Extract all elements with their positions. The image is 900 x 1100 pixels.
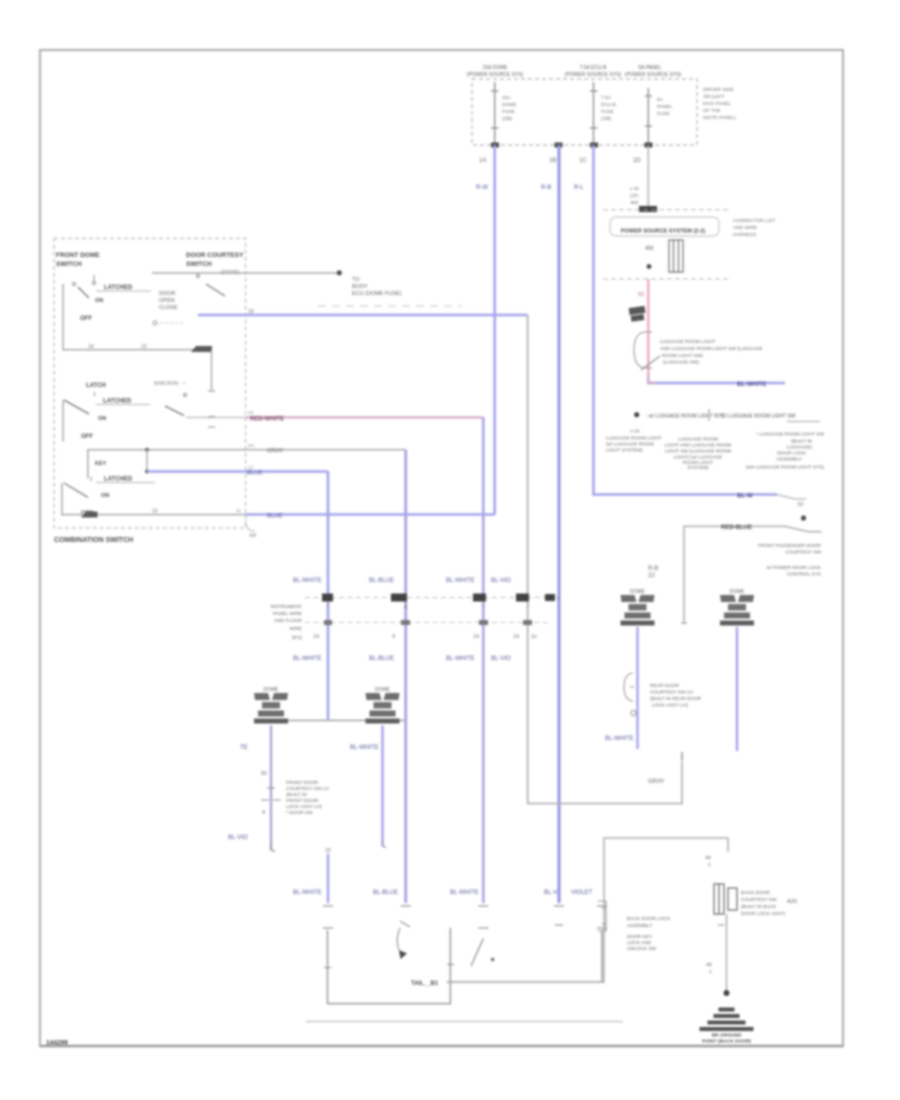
switch tick right — [447, 964, 454, 966]
svg-text:1: 1 — [709, 969, 712, 975]
S2 stub from rail — [208, 350, 215, 391]
svg-text:BL-BLUE: BL-BLUE — [369, 656, 394, 662]
svg-text:(POWER SOURCE SYS): (POWER SOURCE SYS) — [565, 72, 622, 78]
svg-text:DOME: DOME — [502, 102, 516, 108]
svg-text:(POWER SOURCE SYS): (POWER SOURCE SYS) — [625, 72, 682, 78]
gray feed end tick — [681, 622, 687, 624]
wire blue drop from L4 — [736, 627, 738, 751]
svg-text:BL-BLUE: BL-BLUE — [369, 578, 394, 584]
svg-text:LUGGAGE): LUGGAGE) — [787, 445, 813, 451]
svg-text:LATCHED: LATCHED — [104, 285, 133, 291]
border bottom emphasis — [40, 1045, 843, 1048]
svg-text:LIGHT SW (LUGGAGE ROOM: LIGHT SW (LUGGAGE ROOM — [665, 449, 731, 455]
wire blue bottom rail out — [246, 513, 495, 516]
svg-text:LIGHT) (w/ LUGGAGE: LIGHT) (w/ LUGGAGE — [674, 455, 723, 461]
key arrow marks — [400, 921, 410, 927]
S2 left wire and blade — [62, 400, 64, 442]
svg-text:PANEL: PANEL — [657, 104, 673, 110]
wire blue thick from JB down to switch terminal — [557, 145, 560, 903]
svg-text:4B: 4B — [705, 855, 711, 861]
svg-text:INSTR PANEL): INSTR PANEL) — [703, 115, 736, 121]
fuse F2 label — [565, 65, 622, 78]
svg-text:BACK DOOR: BACK DOOR — [741, 890, 770, 896]
svg-text:14: 14 — [473, 634, 479, 640]
switch tick left — [324, 967, 331, 969]
svg-text:BL-WHITE: BL-WHITE — [293, 890, 322, 896]
svg-text:COMBINATION SWITCH: COMBINATION SWITCH — [54, 537, 133, 544]
svg-text:DOOR: DOOR — [159, 291, 176, 297]
svg-text:(BUILT IN: (BUILT IN — [791, 439, 812, 445]
svg-text:DOME: DOME — [264, 687, 280, 693]
wire gray long vertical — [528, 315, 682, 804]
svg-text:1D: 1D — [633, 158, 641, 164]
S2 terminal — [94, 392, 96, 396]
svg-text:* LUGGAGE ROOM LIGHT SW: * LUGGAGE ROOM LIGHT SW — [756, 432, 824, 438]
wire blue vertical to lamp rail — [327, 472, 330, 720]
connector rows left label — [271, 604, 303, 641]
courtesy lamp L3 — [621, 595, 655, 626]
S2 latched underline — [96, 404, 150, 406]
svg-text:PANEL WIRE: PANEL WIRE — [273, 611, 302, 617]
S3 blade assembly — [61, 483, 63, 515]
svg-text:w/ POWER DOOR LOCK: w/ POWER DOOR LOCK — [767, 565, 822, 571]
svg-text:R-W: R-W — [476, 185, 488, 191]
key arrowhead — [399, 950, 407, 959]
power source banner — [610, 217, 719, 236]
svg-text:DOOR COURTESY: DOOR COURTESY — [186, 252, 244, 259]
svg-text:15A: 15A — [502, 95, 511, 101]
svg-text:14: 14 — [88, 344, 94, 350]
ground symbol — [700, 1008, 754, 1032]
S3 rail top — [88, 450, 406, 479]
svg-text:COURTESY SW: COURTESY SW — [785, 550, 821, 556]
svg-text:7.5A: 7.5A — [601, 95, 612, 101]
S1 middle text block — [159, 291, 178, 311]
svg-text:J/B (LEFT: J/B (LEFT — [703, 94, 725, 100]
svg-text:4M): 4M) — [630, 200, 639, 206]
junction block label — [703, 87, 736, 121]
S3 blade — [64, 483, 88, 497]
wire red vertical from J/C down — [647, 279, 649, 382]
footnote block B — [665, 437, 732, 472]
svg-text:FRONT DOOR: FRONT DOOR — [286, 798, 319, 804]
fuse F3 side text — [657, 97, 673, 117]
svg-text:OF THE: OF THE — [703, 108, 721, 114]
assembly right wire — [447, 930, 602, 982]
link down to blue rail — [146, 450, 148, 472]
svg-text:LATCHED: LATCHED — [104, 477, 133, 483]
wire blue lower segment — [327, 854, 329, 903]
svg-text:BL-WHITE: BL-WHITE — [605, 736, 634, 742]
svg-text:UNLOCK SW: UNLOCK SW — [627, 946, 657, 952]
4B1 connector label — [706, 962, 712, 975]
svg-text:4: 4 — [404, 605, 407, 611]
svg-text:* : TO LUGGAGE ROOM LIGHT SW: * : TO LUGGAGE ROOM LIGHT SW — [714, 414, 796, 420]
switch column tick — [718, 924, 724, 926]
svg-text:DOME: DOME — [375, 687, 391, 693]
svg-text:R-L: R-L — [574, 185, 584, 191]
luggage room light switch body — [634, 332, 652, 368]
svg-text:AND FLOOR: AND FLOOR — [274, 618, 303, 624]
junction blob on legend row — [639, 206, 657, 212]
S1 terminal — [93, 275, 96, 285]
right text group 2 — [767, 565, 822, 578]
svg-text:13: 13 — [141, 344, 147, 350]
svg-text:L-W: L-W — [630, 186, 639, 192]
svg-text:BL-V: BL-V — [544, 890, 557, 896]
svg-text:LIGHT SYSTEM): LIGHT SYSTEM) — [606, 448, 643, 454]
svg-text:FRONT PASSENGER DOOR: FRONT PASSENGER DOOR — [758, 543, 822, 549]
node dot TO — [337, 270, 342, 275]
svg-text:BL-WHITE: BL-WHITE — [450, 890, 479, 896]
svg-text:FUSE: FUSE — [502, 109, 515, 115]
svg-text:(LUGGAGE SW): (LUGGAGE SW) — [663, 360, 699, 366]
wire blue horizontal right mid — [594, 494, 778, 495]
wire blue from fuse2 down — [592, 145, 595, 494]
S2 right contact — [184, 394, 187, 397]
key cylinder switch body left — [328, 928, 451, 1004]
junction block J/B dashed outline — [472, 79, 697, 145]
courtesy lamp L2 — [366, 693, 400, 724]
terminal ticks x559 — [554, 906, 564, 925]
svg-text:RED-BLUE: RED-BLUE — [721, 525, 752, 531]
fuse F2 — [590, 82, 598, 145]
S1 left wire — [63, 284, 212, 350]
connector dashed row 2 — [305, 622, 548, 624]
svg-text:GRAY: GRAY — [648, 779, 665, 785]
switch column wire — [726, 914, 728, 991]
svg-text:1A: 1A — [479, 158, 486, 164]
svg-text:A20: A20 — [787, 899, 797, 905]
S1 latched underline — [96, 290, 151, 292]
wire blue drop from L2 — [381, 726, 383, 847]
pin labels at box edge — [236, 410, 255, 514]
wire gray courtesy feed — [684, 526, 822, 623]
svg-text:5A PANEL: 5A PANEL — [638, 65, 661, 71]
back door inside connector — [598, 901, 606, 931]
wire blue drop from L3 — [636, 627, 638, 749]
svg-text:14: 14 — [313, 634, 319, 640]
svg-text:(BUILT IN BACK: (BUILT IN BACK — [741, 904, 777, 910]
connector row labels top — [293, 578, 511, 584]
svg-text:(J/B): (J/B) — [601, 116, 612, 122]
svg-text:BACK DOOR LOCK: BACK DOOR LOCK — [627, 916, 671, 922]
svg-text:A 22: A 22 — [630, 429, 640, 435]
4B2 connector label — [705, 855, 711, 868]
svg-text:144299: 144299 — [46, 1040, 68, 1047]
svg-text:(IF2): (IF2) — [292, 635, 303, 641]
svg-text:ON: ON — [95, 298, 103, 304]
connector blob on red wire — [629, 306, 646, 322]
svg-text:LUGGAGE ROOM LIGHT: LUGGAGE ROOM LIGHT — [660, 339, 716, 345]
box title left — [56, 252, 100, 268]
S1 circled dot annotation — [153, 321, 185, 325]
svg-text:RED-WHITE: RED-WHITE — [250, 417, 284, 423]
wire blue horizontal from switch to right — [648, 382, 785, 385]
svg-text:11: 11 — [236, 508, 241, 514]
S1 contact — [73, 283, 76, 286]
svg-text:SYSTEM): SYSTEM) — [687, 465, 709, 471]
svg-text:BL-W: BL-W — [737, 494, 753, 500]
svg-text:HARNESS: HARNESS — [733, 232, 756, 238]
svg-text:SWITCH: SWITCH — [186, 261, 212, 268]
key arrow arc — [397, 928, 400, 950]
svg-text:BL-VIO: BL-VIO — [228, 835, 248, 841]
svg-text:BL-VIO: BL-VIO — [491, 578, 511, 584]
terminal ticks x405 — [401, 905, 411, 907]
wire gray from fuse3 down — [647, 145, 649, 210]
svg-text:BODY: BODY — [352, 284, 368, 290]
fuse F1 side text — [502, 95, 516, 122]
svg-text:FRONT DOOR: FRONT DOOR — [286, 780, 319, 786]
svg-text:R-B: R-B — [541, 185, 551, 191]
svg-text:7.5A ECU-B: 7.5A ECU-B — [580, 65, 608, 71]
svg-text:DOOR LOCK: DOOR LOCK — [777, 451, 807, 457]
S1 right contact — [197, 275, 200, 278]
svg-text:(BUILT IN: (BUILT IN — [286, 792, 307, 798]
dashed separator row 2 — [603, 278, 731, 280]
svg-text:DOOR KEY: DOOR KEY — [627, 934, 653, 940]
fuse F3 label — [625, 65, 682, 78]
svg-text:COURTESY SW: COURTESY SW — [741, 897, 777, 903]
svg-text:KEY: KEY — [95, 461, 107, 467]
svg-text:LOCK ASSY LH): LOCK ASSY LH) — [286, 804, 322, 810]
back door box outline — [447, 838, 728, 982]
wire blue from fuse1 down — [493, 145, 496, 515]
JB pin blobs — [491, 143, 653, 148]
svg-text:WIRE: WIRE — [289, 626, 302, 632]
row2 pin numbers — [313, 634, 537, 640]
svg-text:OFF: OFF — [81, 434, 93, 440]
svg-text:COURTESY SW LH: COURTESY SW LH — [650, 690, 694, 696]
svg-text:CONTROL SYS: CONTROL SYS — [787, 572, 821, 578]
svg-text:LUGGAGE ROOM: LUGGAGE ROOM — [678, 437, 718, 443]
wire blue rail mid — [147, 470, 328, 473]
svg-text:DOME: DOME — [630, 589, 646, 595]
blue drop end cap — [383, 840, 387, 847]
box bottom corner — [246, 521, 255, 531]
back door courtesy switch connector — [714, 884, 737, 914]
svg-text:4: 4 — [392, 634, 395, 640]
wire red horizontal — [246, 416, 484, 418]
svg-text:LUGGAGE ROOM LIGHT: LUGGAGE ROOM LIGHT — [606, 436, 662, 442]
S3 rail blob — [81, 512, 98, 518]
S2 fixed contact ticks — [208, 417, 215, 428]
dashed separator row 1 — [603, 209, 731, 211]
svg-text:DOOR LOCK ASSY): DOOR LOCK ASSY) — [741, 911, 786, 917]
svg-text:(J/C: (J/C — [630, 193, 639, 199]
svg-text:LIGHT AND LUGGAGE ROOM: LIGHT AND LUGGAGE ROOM — [665, 443, 732, 449]
svg-text:ON: ON — [101, 493, 109, 499]
switch label — [660, 339, 763, 366]
svg-text:4: 4 — [262, 810, 265, 816]
svg-text:(BUILT IN REAR DOOR: (BUILT IN REAR DOOR — [650, 696, 702, 702]
svg-text:10: 10 — [152, 509, 158, 515]
svg-text:BL-WHITE: BL-WHITE — [737, 382, 766, 388]
rear door switch connector on L3 drop — [624, 673, 634, 701]
svg-text:BL-WHITE: BL-WHITE — [446, 578, 475, 584]
svg-text:2H: 2H — [248, 443, 255, 449]
svg-text:REAR DOOR: REAR DOOR — [650, 683, 680, 689]
svg-text:1C: 1C — [579, 158, 587, 164]
svg-text:FUSE: FUSE — [601, 109, 614, 115]
svg-text:ON: ON — [98, 416, 106, 422]
junction node lower — [145, 470, 149, 474]
ground node dot — [724, 990, 730, 996]
rear door switch ring — [631, 710, 636, 715]
svg-text:LATCH: LATCH — [86, 383, 106, 389]
svg-text:GRAY: GRAY — [267, 449, 284, 455]
svg-text:BL-VIO: BL-VIO — [491, 656, 511, 662]
terminal ticks x602 — [597, 906, 607, 928]
svg-text:ASSEMBLY: ASSEMBLY — [776, 457, 802, 463]
svg-text:BLUE: BLUE — [267, 514, 283, 520]
svg-text:ECU-B: ECU-B — [601, 102, 616, 108]
svg-text:COURTESY SW LH: COURTESY SW LH — [286, 786, 330, 792]
banner side label — [733, 218, 775, 238]
svg-text:1B: 1B — [549, 158, 556, 164]
connector tick top of gray stub — [681, 752, 683, 761]
svg-text:R-B: R-B — [648, 566, 658, 572]
unlock blade — [471, 939, 483, 966]
svg-text:92: 92 — [638, 292, 644, 298]
node dot right — [801, 515, 806, 520]
S3 latched underline — [96, 482, 155, 484]
footnote block C — [746, 432, 825, 471]
svg-text:BL-BLUE: BL-BLUE — [373, 890, 398, 896]
svg-text:92: 92 — [261, 771, 267, 777]
S1 blade — [78, 287, 89, 298]
svg-text:22: 22 — [648, 573, 655, 579]
S2 right blade — [165, 406, 184, 416]
fuse F1 label — [467, 65, 524, 78]
connector code text near fuse3 line — [630, 186, 639, 206]
front door courtesy switch text — [286, 780, 330, 816]
svg-text:ASSEMBLY: ASSEMBLY — [627, 923, 653, 929]
rear door switch label — [650, 683, 702, 709]
footnote block A — [606, 429, 662, 454]
TO text — [352, 277, 402, 297]
mechanical link dashes — [318, 305, 462, 307]
svg-text:4M: 4M — [645, 246, 653, 252]
S3 bottom rail — [61, 514, 246, 516]
long thin baseline — [306, 1021, 623, 1023]
S1 right blade — [206, 284, 225, 296]
svg-text:OPEN: OPEN — [159, 298, 175, 304]
junction node on rail — [145, 448, 149, 452]
svg-text:(POWER SOURCE SYS): (POWER SOURCE SYS) — [467, 72, 524, 78]
wire blue dome out — [198, 314, 528, 317]
svg-text:(w/o LUGGAGE ROOM LIGHT SYS): (w/o LUGGAGE ROOM LIGHT SYS) — [746, 465, 825, 471]
bottom wire labels row — [373, 890, 593, 896]
wire violet vertical from red corner down — [482, 417, 485, 903]
svg-text:BL-WHITE: BL-WHITE — [350, 745, 379, 751]
ground label — [702, 1033, 751, 1045]
back door text block — [627, 916, 671, 952]
svg-text:TE: TE — [240, 745, 248, 751]
svg-text:(J/B): (J/B) — [502, 116, 513, 122]
svg-text:CLOSE: CLOSE — [159, 305, 178, 311]
inter-row ticks — [328, 601, 528, 608]
S3 terminal — [90, 477, 92, 481]
courtesy lamp L1 — [254, 693, 288, 724]
connector row labels bottom — [293, 656, 511, 662]
svg-text:BR GROUND: BR GROUND — [712, 1033, 742, 1039]
right text group 1 — [758, 543, 822, 556]
JB pin numbers — [479, 158, 641, 164]
S1 rail tick text — [88, 344, 147, 350]
terminal ticks x328 — [323, 906, 333, 928]
svg-text:LATCHED: LATCHED — [103, 399, 132, 405]
svg-text:13: 13 — [248, 410, 254, 416]
svg-text:15A DOME: 15A DOME — [482, 65, 508, 71]
switch blade Q — [641, 356, 660, 370]
svg-text:2: 2 — [708, 862, 711, 868]
to annotation line — [152, 272, 337, 274]
svg-text:BL-WHITE: BL-WHITE — [293, 578, 322, 584]
violet inline connector — [261, 799, 281, 801]
svg-text:4B: 4B — [706, 962, 712, 968]
svg-text:SWITCH: SWITCH — [56, 261, 82, 268]
fuse F1 — [491, 82, 499, 145]
svg-text:INSTRUMENT: INSTRUMENT — [271, 604, 303, 610]
wire violet long vertical — [404, 450, 407, 903]
back door courtesy switch label — [741, 890, 786, 917]
connector dashed row 1 — [305, 597, 548, 599]
corner red-blue — [648, 376, 656, 383]
svg-text:19: 19 — [797, 502, 803, 508]
svg-text:5A: 5A — [657, 97, 664, 103]
courtesy lamp L4 — [720, 595, 754, 626]
svg-text:(w/ LUGGAGE ROOM: (w/ LUGGAGE ROOM — [606, 442, 654, 448]
svg-text:POINT (BACK DOOR): POINT (BACK DOOR) — [702, 1039, 751, 1045]
svg-text:OFF: OFF — [80, 316, 92, 322]
svg-text:(UNLOCK): (UNLOCK) — [154, 381, 179, 387]
junction connector J/C box — [669, 240, 683, 272]
S2 link dashes — [154, 382, 187, 384]
take-off jog — [777, 495, 806, 500]
svg-text:16: 16 — [248, 309, 254, 315]
svg-text:BL-WHITE: BL-WHITE — [446, 656, 475, 662]
svg-text:FUSE: FUSE — [657, 111, 670, 117]
svg-text:AND WIRE: AND WIRE — [733, 225, 757, 231]
svg-text:DOME: DOME — [730, 589, 746, 595]
violet end hook — [271, 842, 275, 851]
svg-text:TAIL__B1: TAIL__B1 — [411, 981, 439, 987]
junction dot 4M — [647, 264, 652, 269]
svg-text:FRONT DOME: FRONT DOME — [56, 252, 100, 259]
svg-text:CONNECTOR LIST: CONNECTOR LIST — [733, 218, 775, 224]
svg-text:14: 14 — [513, 634, 519, 640]
gray feed side label — [648, 566, 658, 579]
box title right — [186, 252, 244, 268]
svg-text:TO: TO — [352, 277, 360, 283]
terminal ticks x483 — [478, 906, 488, 928]
left combination switch dashed box — [54, 238, 246, 528]
wire color labels under JB — [476, 185, 584, 191]
S2 wire to box edge — [186, 416, 246, 418]
svg-text:1x: 1x — [531, 634, 537, 640]
fuse F3 — [645, 88, 652, 145]
fuse F2 side text — [601, 95, 616, 122]
connector blobs row 1 — [322, 594, 555, 602]
footnote legend row — [634, 409, 820, 422]
svg-text:ECU (DOME FUSE): ECU (DOME FUSE) — [352, 291, 402, 297]
svg-text:AND LUGGAGE ROOM LIGHT SW (LUG: AND LUGGAGE ROOM LIGHT SW (LUGGAGE — [660, 346, 763, 352]
svg-text:BLUE: BLUE — [247, 471, 263, 477]
wire violet drop from L1 — [270, 726, 272, 851]
svg-text:BL-WHITE: BL-WHITE — [293, 656, 322, 662]
